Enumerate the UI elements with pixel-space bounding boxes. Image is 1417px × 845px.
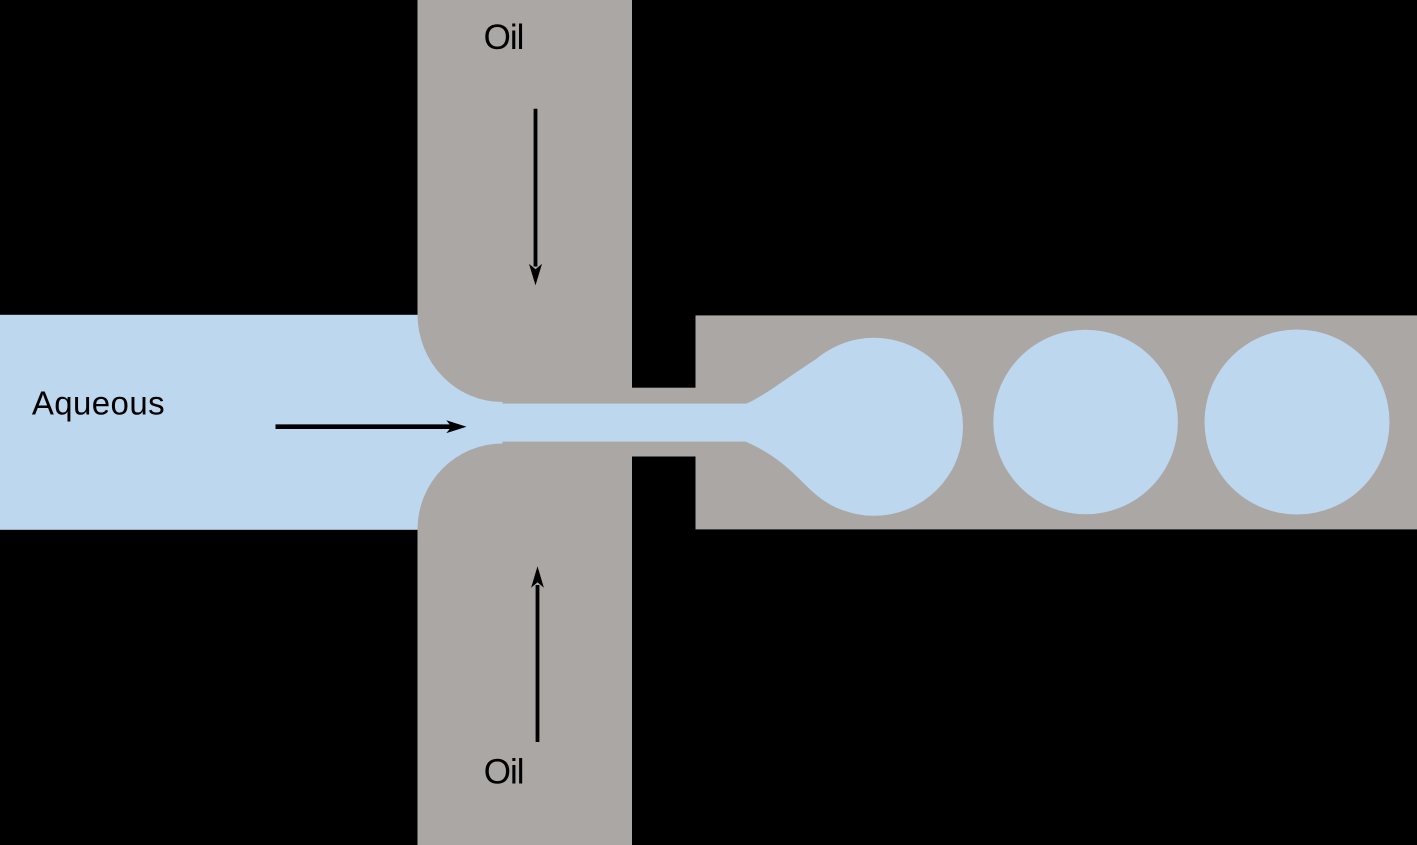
svg-text:Oil: Oil: [484, 18, 524, 57]
droplet 2 (blue): [993, 330, 1178, 515]
droplet forming tail (blue): [746, 340, 874, 511]
outlet channel (gray): [696, 315, 1417, 529]
aqueous inlet channel (blue): [0, 315, 632, 530]
svg-text:Oil: Oil: [484, 752, 524, 791]
droplet 1 bulb (blue): [785, 338, 963, 516]
droplet 3 (blue): [1205, 330, 1390, 515]
orifice lip top (gray): [503, 388, 697, 405]
oil channel bottom (gray, rounded top-left corner): [418, 444, 633, 845]
bottom oil flow arrow: [536, 585, 540, 742]
top oil flow arrow: [534, 109, 538, 267]
oil channel top (gray, rounded bottom-left corner): [418, 0, 633, 402]
aqueous flow arrow: [276, 424, 453, 429]
orifice lip bottom (gray): [503, 441, 697, 457]
focused jet (blue): [503, 404, 753, 442]
svg-text:Aqueous: Aqueous: [32, 384, 165, 421]
